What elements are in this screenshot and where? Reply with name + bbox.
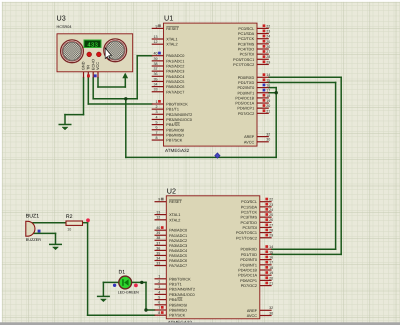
svg-text:PC4/TDO: PC4/TDO	[238, 47, 255, 52]
svg-text:RESET: RESET	[166, 26, 179, 31]
svg-text:15: 15	[266, 78, 270, 83]
svg-text:17: 17	[266, 88, 270, 93]
svg-text:7: 7	[156, 130, 158, 135]
svg-text:36: 36	[156, 246, 160, 251]
svg-text:PB2/AIN0/INT2: PB2/AIN0/INT2	[166, 112, 192, 117]
svg-text:5: 5	[158, 295, 160, 300]
svg-text:20: 20	[269, 276, 273, 281]
svg-text:XTAL2: XTAL2	[169, 218, 180, 223]
svg-text:39: 39	[156, 231, 160, 236]
svg-text:PA1/ADC1: PA1/ADC1	[166, 59, 184, 64]
svg-text:PB5/MOSI: PB5/MOSI	[169, 303, 187, 308]
svg-text:LED-GREEN: LED-GREEN	[118, 290, 139, 295]
svg-text:U3: U3	[57, 15, 66, 23]
svg-text:PA6/ADC6: PA6/ADC6	[169, 259, 187, 264]
svg-text:U2: U2	[167, 187, 176, 195]
svg-text:GND: GND	[81, 61, 86, 70]
svg-text:PA7/ADC7: PA7/ADC7	[166, 90, 184, 95]
svg-text:23: 23	[269, 202, 273, 207]
svg-text:18: 18	[269, 265, 273, 270]
svg-text:12: 12	[156, 215, 160, 220]
svg-text:PC3/TMS: PC3/TMS	[238, 42, 254, 47]
svg-text:PD1/TXD: PD1/TXD	[241, 252, 257, 257]
svg-text:29: 29	[266, 60, 270, 65]
svg-text:4: 4	[156, 115, 158, 120]
svg-text:BUZZER: BUZZER	[26, 237, 41, 242]
svg-text:PD5/OC1A: PD5/OC1A	[238, 273, 257, 278]
svg-text:PD0/RXD: PD0/RXD	[238, 75, 255, 80]
svg-text:PB1/T1: PB1/T1	[169, 282, 182, 287]
svg-text:XTAL1: XTAL1	[166, 37, 177, 42]
svg-text:13: 13	[156, 210, 160, 215]
svg-text:PA3/ADC3: PA3/ADC3	[169, 243, 187, 248]
svg-text:PC2/TCK: PC2/TCK	[238, 37, 254, 42]
svg-text:PD5/OC1A: PD5/OC1A	[235, 101, 254, 106]
svg-text:AREF: AREF	[244, 135, 254, 140]
svg-text:18: 18	[266, 93, 270, 98]
svg-text:26: 26	[266, 44, 270, 49]
svg-text:PB7/SCK: PB7/SCK	[166, 138, 182, 143]
svg-text:28: 28	[266, 55, 270, 60]
svg-text:PA4/ADC4: PA4/ADC4	[166, 74, 184, 79]
svg-text:PB0/T0/XCK: PB0/T0/XCK	[169, 277, 191, 282]
svg-text:2: 2	[156, 105, 158, 110]
svg-text:PB1/T1: PB1/T1	[166, 107, 179, 112]
svg-text:37: 37	[154, 67, 158, 72]
svg-text:XTAL1: XTAL1	[169, 213, 180, 218]
svg-text:PA4/ADC4: PA4/ADC4	[169, 248, 187, 253]
svg-text:PA6/ADC6: PA6/ADC6	[166, 85, 184, 90]
svg-text:36: 36	[154, 72, 158, 77]
svg-text:1: 1	[156, 99, 158, 104]
svg-text:6: 6	[158, 300, 160, 305]
svg-text:VCC: VCC	[96, 62, 101, 70]
svg-text:RESET: RESET	[169, 200, 182, 205]
svg-text:25: 25	[266, 39, 270, 44]
svg-text:PB7/SCK: PB7/SCK	[169, 313, 185, 318]
svg-text:D1: D1	[119, 269, 126, 275]
svg-text:PA7/ADC7: PA7/ADC7	[169, 264, 187, 269]
svg-text:9: 9	[156, 24, 158, 29]
svg-text:PA5/ADC5: PA5/ADC5	[166, 79, 184, 84]
svg-text:PD6/ICP1: PD6/ICP1	[237, 106, 254, 111]
svg-text:17: 17	[269, 260, 273, 265]
svg-text:21: 21	[266, 109, 270, 114]
svg-text:PC7/TOSC2: PC7/TOSC2	[236, 236, 257, 241]
svg-text:PD3/INT1: PD3/INT1	[240, 263, 257, 268]
svg-text:5: 5	[156, 120, 158, 125]
svg-text:3: 3	[158, 285, 160, 290]
svg-text:29: 29	[269, 233, 273, 238]
svg-text:30: 30	[266, 137, 270, 142]
svg-text:433: 433	[87, 42, 98, 49]
svg-text:PD7/OC2: PD7/OC2	[241, 284, 257, 289]
svg-text:PD2/INT0: PD2/INT0	[240, 258, 257, 263]
svg-text:15: 15	[269, 250, 273, 255]
svg-text:22: 22	[269, 197, 273, 202]
svg-text:PB2/AIN0/INT2: PB2/AIN0/INT2	[169, 287, 195, 292]
svg-text:28: 28	[269, 228, 273, 233]
svg-text:PB6/MISO: PB6/MISO	[169, 308, 187, 313]
svg-text:PA1/ADC1: PA1/ADC1	[169, 233, 187, 238]
svg-text:PB6/MISO: PB6/MISO	[166, 133, 184, 138]
svg-text:35: 35	[154, 77, 158, 82]
svg-text:14: 14	[266, 73, 270, 78]
svg-text:PB4/SS: PB4/SS	[169, 298, 182, 303]
svg-text:PD0/RXD: PD0/RXD	[241, 247, 258, 252]
svg-text:PD6/ICP1: PD6/ICP1	[240, 278, 257, 283]
svg-text:PC0/SCL: PC0/SCL	[238, 26, 254, 31]
svg-text:PC4/TDO: PC4/TDO	[241, 220, 258, 225]
svg-text:PA5/ADC5: PA5/ADC5	[169, 253, 187, 258]
svg-text:PA0/ADC0: PA0/ADC0	[169, 228, 187, 233]
svg-text:HCSR04: HCSR04	[57, 24, 72, 29]
svg-text:PD3/INT1: PD3/INT1	[238, 91, 255, 96]
svg-text:2: 2	[158, 279, 160, 284]
svg-text:PC7/TOSC2: PC7/TOSC2	[233, 62, 254, 67]
svg-text:40: 40	[154, 51, 158, 56]
svg-text:PA2/ADC2: PA2/ADC2	[169, 238, 187, 243]
svg-text:6: 6	[156, 125, 158, 130]
svg-text:4: 4	[158, 290, 160, 295]
svg-text:PC3/TMS: PC3/TMS	[241, 215, 257, 220]
svg-text:38: 38	[154, 61, 158, 66]
svg-text:16: 16	[266, 83, 270, 88]
svg-text:24: 24	[269, 207, 273, 212]
svg-text:PC1/SDA: PC1/SDA	[238, 32, 255, 37]
svg-text:PC6/TOSC1: PC6/TOSC1	[236, 231, 257, 236]
svg-text:21: 21	[269, 281, 273, 286]
svg-text:PB3/AIN1/OC0: PB3/AIN1/OC0	[169, 292, 195, 297]
svg-text:8: 8	[158, 311, 160, 316]
svg-text:AREF: AREF	[247, 308, 257, 313]
svg-text:35: 35	[156, 251, 160, 256]
svg-text:PD4/OC1B: PD4/OC1B	[238, 268, 257, 273]
svg-text:PC5/TDI: PC5/TDI	[240, 52, 255, 57]
svg-text:AVCC: AVCC	[244, 140, 255, 145]
svg-text:PD1/TXD: PD1/TXD	[238, 80, 254, 85]
svg-text:34: 34	[154, 82, 158, 87]
svg-text:24: 24	[266, 34, 270, 39]
svg-text:33: 33	[156, 261, 160, 266]
svg-text:U1: U1	[164, 15, 173, 23]
svg-text:PC1/SDA: PC1/SDA	[241, 205, 258, 210]
svg-text:23: 23	[266, 29, 270, 34]
svg-text:19: 19	[266, 98, 270, 103]
svg-text:PC6/TOSC1: PC6/TOSC1	[233, 57, 254, 62]
svg-text:PB0/T0/XCK: PB0/T0/XCK	[166, 102, 188, 107]
svg-text:38: 38	[156, 236, 160, 241]
svg-text:PA3/ADC3: PA3/ADC3	[166, 69, 184, 74]
svg-text:3: 3	[156, 110, 158, 115]
svg-text:26: 26	[269, 218, 273, 223]
svg-text:34: 34	[156, 256, 160, 261]
svg-text:27: 27	[266, 50, 270, 55]
svg-text:13: 13	[154, 34, 158, 39]
svg-text:PB3/AIN1/OC0: PB3/AIN1/OC0	[166, 117, 192, 122]
svg-text:9: 9	[158, 197, 160, 202]
svg-text:22: 22	[266, 24, 270, 29]
svg-text:16: 16	[269, 255, 273, 260]
svg-text:ECHO: ECHO	[91, 59, 96, 70]
svg-text:40: 40	[156, 226, 160, 231]
svg-text:33: 33	[154, 87, 158, 92]
svg-text:PB5/MOSI: PB5/MOSI	[166, 128, 184, 133]
svg-text:37: 37	[156, 241, 160, 246]
svg-text:PA0/ADC0: PA0/ADC0	[166, 54, 184, 59]
svg-text:39: 39	[154, 56, 158, 61]
svg-text:30: 30	[269, 311, 273, 316]
svg-text:10: 10	[67, 227, 71, 232]
svg-text:12: 12	[154, 40, 158, 45]
svg-text:TR: TR	[86, 65, 91, 70]
svg-text:PA2/ADC2: PA2/ADC2	[166, 64, 184, 69]
svg-text:1: 1	[158, 274, 160, 279]
svg-text:PD4/OC1B: PD4/OC1B	[235, 96, 254, 101]
svg-text:7: 7	[158, 305, 160, 310]
svg-text:XTAL2: XTAL2	[166, 42, 177, 47]
svg-text:ATMEGA32: ATMEGA32	[165, 148, 189, 153]
svg-text:32: 32	[269, 306, 273, 311]
svg-text:PC2/TCK: PC2/TCK	[241, 210, 257, 215]
svg-text:27: 27	[269, 223, 273, 228]
svg-text:AVCC: AVCC	[247, 314, 258, 319]
svg-text:PD2/INT0: PD2/INT0	[238, 86, 255, 91]
svg-text:25: 25	[269, 213, 273, 218]
svg-text:PD7/OC2: PD7/OC2	[238, 111, 254, 116]
svg-text:8: 8	[156, 135, 158, 140]
svg-text:19: 19	[269, 271, 273, 276]
svg-text:PB4/SS: PB4/SS	[166, 123, 179, 128]
svg-text:32: 32	[266, 132, 270, 137]
svg-text:14: 14	[269, 245, 273, 250]
svg-text:20: 20	[266, 104, 270, 109]
svg-text:PC5/TDI: PC5/TDI	[242, 225, 257, 230]
svg-text:PC0/SCL: PC0/SCL	[241, 200, 257, 205]
svg-text:R2: R2	[66, 214, 73, 220]
svg-text:BUZ1: BUZ1	[26, 214, 39, 220]
